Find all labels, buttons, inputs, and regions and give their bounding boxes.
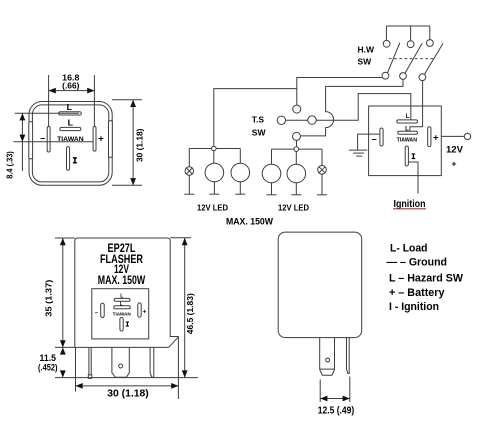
relay pin minus slot [380, 128, 383, 146]
earth ground bar 3 [356, 155, 362, 157]
right lamp bus wire [272, 148, 323, 150]
svg-text:MAX. 150W: MAX. 150W [226, 217, 274, 228]
svg-text:12V LED: 12V LED [197, 203, 228, 213]
relay bottom-view inner case line [32, 105, 108, 182]
dim 8.4 dimension line vertical [21, 113, 23, 171]
relay bottom-view outer case [29, 102, 112, 186]
dim 46.5 arrow up [182, 238, 188, 245]
wire bus drop 1 [385, 26, 387, 40]
relay pin I label [412, 153, 416, 159]
dim 16.8 arrow right [87, 88, 94, 94]
wire T.S middle to relay L1 pin [316, 94, 411, 121]
wire T.S bottom to lamp node [296, 141, 298, 147]
svg-text:SW: SW [252, 127, 267, 137]
lamp right A [262, 164, 281, 183]
wire H.W pole2 over crossover to T.S bottom [301, 79, 403, 135]
pins bottom extension line [55, 377, 198, 379]
dim 30 bottom extension right [177, 378, 179, 399]
earth ground bar 2 [353, 152, 364, 154]
lamp left B [231, 163, 250, 182]
svg-text:+: + [143, 309, 147, 316]
mini pin L2 slot [114, 306, 131, 309]
H.W SW fixed contact 3 [427, 40, 434, 47]
SECTION: side view [278, 232, 362, 416]
relay side-view body [278, 232, 362, 338]
relay front-view body [75, 238, 179, 378]
pin L2 slot [60, 127, 81, 130]
SECTION: front view [38, 238, 198, 399]
pin plus slot (right) [93, 127, 96, 152]
dim 12.5 extension right [349, 377, 351, 403]
lamp left A [205, 163, 224, 182]
wire relay minus to ground [358, 134, 380, 150]
svg-text:–: – [372, 134, 377, 144]
svg-text:12.5 (.49): 12.5 (.49) [318, 406, 355, 417]
terminal blade left tip [88, 375, 92, 378]
dim 30 dimension line vertical [132, 100, 134, 186]
dim 16.8 extension line right [93, 75, 95, 127]
pin layout box [92, 289, 149, 339]
dim 30 bottom dimension line [76, 385, 179, 387]
relay pin L1 slot [397, 120, 418, 123]
dim 11.5 arrow down [60, 370, 66, 377]
body corner brace diagonal [169, 337, 178, 347]
ground bar [267, 194, 277, 196]
pin L1 slot (top) [59, 112, 82, 115]
terminal blade center hole [119, 364, 123, 368]
extension line through pin centers (8.4 dim ref) [14, 141, 94, 143]
H.W SW blade 2 [405, 43, 422, 73]
relay pin plus slot [428, 127, 431, 147]
dim 16.8 extension line left [48, 75, 50, 127]
pin I slot (bottom) [67, 147, 70, 170]
svg-text:30 (1.18): 30 (1.18) [107, 388, 149, 399]
ground stem indicator left [188, 175, 190, 194]
svg-text:35 (1.37): 35 (1.37) [43, 280, 53, 317]
relay pinout box [369, 106, 442, 176]
svg-text:12V LED: 12V LED [278, 203, 309, 213]
mini I label [126, 322, 129, 327]
svg-text:L: L [120, 293, 123, 299]
lamp right B [287, 164, 306, 183]
svg-text:+: + [98, 134, 104, 145]
dim 12.5 arrow left [320, 396, 327, 402]
svg-text:MAX. 150W: MAX. 150W [98, 275, 146, 287]
H.W SW pole contact 2 [400, 73, 407, 80]
svg-text:12V: 12V [446, 144, 464, 155]
H.W SW pole contact 3 [419, 74, 426, 81]
T.S SW bottom contact [293, 132, 301, 140]
dim 30 bottom arrow right [171, 383, 178, 389]
indicator lamp left [185, 167, 194, 176]
H.W SW blade 1 [388, 43, 400, 73]
wire bus drop 3 [429, 26, 431, 40]
ground bar [209, 193, 219, 195]
indicator lamp right [318, 166, 327, 175]
Ignition underline [393, 208, 426, 210]
svg-text:T.S: T.S [252, 114, 265, 124]
relay pin I slot [405, 146, 408, 166]
dim 12.5 dimension line [320, 398, 350, 400]
ground stem lamp rA [271, 183, 273, 195]
ground stem indicator right [321, 174, 323, 195]
H.W SW fixed contact 1 [383, 40, 390, 47]
dim 35/11.5 extension mid [55, 346, 75, 348]
svg-text:+ – Battery: + – Battery [389, 287, 445, 299]
dim 30 arrow up [130, 100, 136, 107]
dim 46.5 extension top [170, 237, 191, 239]
mini pin L1 slot [114, 298, 130, 301]
svg-text:L: L [120, 301, 123, 307]
junction node right [294, 147, 299, 152]
junction node left [212, 146, 217, 151]
svg-text:I - Ignition: I - Ignition [389, 301, 439, 313]
dim 30 arrow down [130, 178, 136, 185]
mini pin plus slot [138, 303, 141, 317]
svg-text:L: L [405, 127, 409, 133]
T.S SW left contact [277, 116, 285, 124]
side blade thin [347, 338, 350, 374]
dim 35 extension top [55, 237, 75, 239]
ground bar [317, 194, 327, 196]
svg-text:SW: SW [358, 57, 373, 67]
svg-text:46.5 (1.83): 46.5 (1.83) [185, 293, 195, 334]
case side rail left [29, 122, 33, 159]
SECTION: top-left bottom view [5, 72, 144, 185]
ground bar [184, 193, 194, 195]
svg-text:–: – [95, 311, 99, 317]
svg-text:L: L [68, 119, 74, 128]
svg-text:+: + [433, 132, 439, 143]
wire relay plus to battery terminal [441, 135, 464, 137]
svg-text:+: + [452, 159, 457, 169]
wire bus drop 2 [410, 26, 412, 41]
T.S SW middle contact [308, 116, 316, 124]
left bus drop mid [213, 151, 215, 164]
svg-text:TIAWAN: TIAWAN [397, 138, 417, 144]
H.W SW fixed contact 2 [407, 41, 414, 48]
H.W SW mechanical link dashed [389, 58, 433, 60]
dim 35 arrow up [60, 238, 66, 245]
case side rail right [109, 121, 113, 158]
earth ground bar 1 [349, 149, 367, 151]
H.W SW top bus wire [386, 25, 430, 27]
svg-text:L- Load: L- Load [390, 243, 428, 255]
wire H.W pole1 to T.S top [297, 78, 382, 106]
svg-text:(.452): (.452) [38, 362, 58, 372]
wire left lamp bus to junction [214, 89, 297, 147]
dim 11.5 arrow up [60, 347, 66, 354]
SECTION: schematic [184, 26, 470, 228]
svg-text:30 (1.18): 30 (1.18) [135, 128, 144, 162]
ground stem lamp B [239, 182, 241, 194]
side blade center hole [326, 358, 330, 362]
ground stem lamp rB [295, 183, 297, 195]
wire relay I pin to ignition [408, 162, 418, 194]
left bus drop right [239, 149, 241, 164]
ground bar [291, 194, 301, 196]
right bus drop to indicator [321, 149, 323, 165]
pin I label [73, 157, 77, 163]
dim 8.4 arrow up [20, 113, 26, 120]
svg-text:8.4 (.33): 8.4 (.33) [5, 151, 14, 179]
terminal blade left [89, 348, 91, 375]
ground bar [235, 193, 245, 195]
mini pin minus slot [101, 303, 105, 317]
dim 46.5 dimension line [184, 238, 186, 378]
dim 30 bottom arrow left [76, 383, 83, 389]
svg-text:L: L [67, 103, 73, 112]
side blade center [320, 338, 335, 376]
battery terminal circle [464, 133, 470, 139]
right bus drop mid [295, 151, 297, 164]
svg-text:L – Hazard SW: L – Hazard SW [389, 273, 464, 285]
svg-text:(.66): (.66) [62, 81, 79, 91]
extension line through top slot (8.4 dim ref) [15, 112, 79, 114]
relay pin L2 slot [398, 131, 418, 134]
wire H.W pole3 to relay L2 pin [410, 81, 423, 132]
dim 30 extension line top [112, 99, 142, 101]
svg-text:TIAWAN: TIAWAN [113, 311, 132, 316]
SECTION: legend [387, 243, 464, 314]
dim 30 bottom extension left [75, 347, 77, 391]
H.W SW blade 3 [425, 43, 444, 74]
H.W SW pole contact 1 [382, 72, 389, 79]
dim 16.8 dimension line [49, 90, 95, 92]
dim 30 extension line bottom [112, 184, 142, 186]
wire T.S left to middle [286, 119, 308, 121]
svg-text:L: L [406, 114, 410, 120]
dim 35 dimension line [62, 238, 64, 347]
dim 8.4 arrow down [20, 135, 26, 142]
T.S SW top contact [293, 105, 301, 113]
left bus drop to indicator [188, 149, 190, 167]
dim 12.5 arrow right [343, 396, 350, 402]
svg-text:— – Ground: — – Ground [387, 257, 448, 269]
left lamp bus wire [189, 148, 240, 150]
terminal blade center [112, 348, 129, 378]
dim 35 arrow down [60, 340, 66, 347]
dim 46.5 arrow down [182, 370, 188, 377]
dim 16.8 arrow left [49, 88, 56, 94]
terminal blade right [150, 348, 154, 378]
pin minus slot (left) [47, 127, 50, 153]
svg-text:H.W: H.W [358, 45, 376, 55]
ground stem lamp A [213, 182, 215, 194]
dim 12.5 extension left [319, 380, 321, 403]
right bus drop left [271, 149, 273, 164]
mini pin I slot [120, 318, 123, 332]
